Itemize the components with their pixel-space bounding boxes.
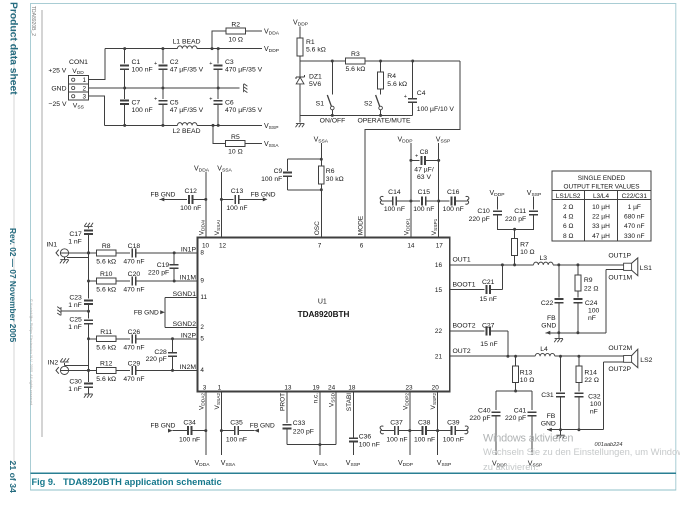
svg-text:C6: C6 <box>225 100 234 107</box>
svg-text:−25 V: −25 V <box>49 101 67 108</box>
svg-text:C12: C12 <box>184 188 197 195</box>
svg-text:R12: R12 <box>100 360 113 367</box>
svg-text:C26: C26 <box>128 329 141 336</box>
svg-text:100 nF: 100 nF <box>180 205 201 212</box>
svg-text:22 Ω: 22 Ω <box>584 377 599 384</box>
svg-text:FB: FB <box>547 413 556 420</box>
svg-text:7: 7 <box>318 243 322 250</box>
svg-text:2 Ω: 2 Ω <box>563 204 573 211</box>
svg-text:C5: C5 <box>170 100 179 107</box>
svg-text:330 nF: 330 nF <box>624 233 645 240</box>
svg-text:220 pF: 220 pF <box>148 269 169 276</box>
svg-text:5.6 kΩ: 5.6 kΩ <box>345 66 365 73</box>
svg-text:10 Ω: 10 Ω <box>520 377 535 384</box>
svg-text:2: 2 <box>200 324 204 331</box>
svg-text:C35: C35 <box>230 420 243 427</box>
svg-text:C19: C19 <box>157 262 170 269</box>
svg-text:33 µH: 33 µH <box>592 223 610 230</box>
svg-text:C3: C3 <box>225 59 234 66</box>
svg-text:5.6 kΩ: 5.6 kΩ <box>306 47 326 54</box>
svg-text:10 Ω: 10 Ω <box>520 249 535 256</box>
svg-text:L3: L3 <box>540 255 548 262</box>
svg-text:5V6: 5V6 <box>309 81 321 88</box>
svg-text:C23: C23 <box>69 294 82 301</box>
svg-text:100 nF: 100 nF <box>226 436 247 443</box>
svg-text:C21: C21 <box>482 279 495 286</box>
svg-text:47 µH: 47 µH <box>592 233 610 240</box>
svg-text:1 nF: 1 nF <box>68 324 82 331</box>
svg-text:R13: R13 <box>520 369 533 376</box>
svg-text:8: 8 <box>200 250 204 257</box>
svg-text:63 V: 63 V <box>417 174 431 181</box>
svg-text:Wechseln Sie zu den Einstellun: Wechseln Sie zu den Einstellungen, um Wi… <box>483 446 680 457</box>
svg-text:C39: C39 <box>447 420 460 427</box>
svg-text:+: + <box>415 154 418 160</box>
svg-text:LS2: LS2 <box>640 357 652 364</box>
svg-text:47 µF/: 47 µF/ <box>414 166 434 173</box>
svg-text:+25 V: +25 V <box>48 68 66 75</box>
svg-text:21 of 34: 21 of 34 <box>8 461 18 494</box>
svg-text:680 nF: 680 nF <box>624 214 645 221</box>
svg-text:C15: C15 <box>418 189 431 196</box>
svg-text:+: + <box>209 61 212 67</box>
svg-text:470 nF: 470 nF <box>624 223 645 230</box>
svg-text:470 nF: 470 nF <box>123 376 144 383</box>
svg-text:19: 19 <box>312 385 320 392</box>
svg-text:6: 6 <box>360 243 364 250</box>
svg-text:LS1/LS2: LS1/LS2 <box>556 193 581 200</box>
svg-text:100 nF: 100 nF <box>384 206 405 213</box>
svg-text:OSC: OSC <box>314 221 321 235</box>
svg-text:L4: L4 <box>540 346 548 353</box>
svg-text:R7: R7 <box>520 241 529 248</box>
svg-text:100 nF: 100 nF <box>132 66 153 73</box>
svg-text:100 nF: 100 nF <box>179 436 200 443</box>
svg-text:R2: R2 <box>231 21 240 28</box>
svg-text:GND: GND <box>541 420 556 427</box>
svg-text:1 nF: 1 nF <box>68 302 82 309</box>
svg-text:5: 5 <box>200 336 204 343</box>
svg-text:C20: C20 <box>128 271 141 278</box>
svg-text:OUT2: OUT2 <box>453 348 471 355</box>
svg-text:C25: C25 <box>69 316 82 323</box>
svg-text:4: 4 <box>200 367 204 374</box>
svg-text:18: 18 <box>348 385 356 392</box>
svg-text:5.6 kΩ: 5.6 kΩ <box>387 81 407 88</box>
svg-text:17: 17 <box>436 243 444 250</box>
svg-text:C29: C29 <box>128 360 141 367</box>
svg-text:16: 16 <box>435 262 443 269</box>
svg-text:C38: C38 <box>418 420 431 427</box>
svg-text:220 pF: 220 pF <box>146 356 167 363</box>
svg-text:30 kΩ: 30 kΩ <box>326 176 344 183</box>
svg-text:470 nF: 470 nF <box>123 259 144 266</box>
svg-text:220 pF: 220 pF <box>293 428 314 435</box>
svg-text:47 µF/35 V: 47 µF/35 V <box>170 107 204 114</box>
svg-text:10 µH: 10 µH <box>592 204 610 211</box>
svg-text:OUT2P: OUT2P <box>608 366 631 373</box>
svg-text:CON1: CON1 <box>69 59 88 66</box>
svg-text:R14: R14 <box>584 369 597 376</box>
svg-text:zu aktivieren.: zu aktivieren. <box>483 461 538 472</box>
svg-text:R10: R10 <box>100 271 113 278</box>
svg-text:220 pF: 220 pF <box>469 216 490 223</box>
svg-text:C41: C41 <box>514 407 527 414</box>
svg-text:R8: R8 <box>102 243 111 250</box>
svg-text:SINGLE ENDED: SINGLE ENDED <box>578 175 626 182</box>
svg-text:1 µF: 1 µF <box>628 204 641 211</box>
svg-text:22 Ω: 22 Ω <box>584 285 599 292</box>
svg-text:ON/OFF: ON/OFF <box>320 117 346 124</box>
svg-text:U1: U1 <box>318 299 327 306</box>
svg-text:100: 100 <box>590 401 602 408</box>
svg-text:C22/C31: C22/C31 <box>622 193 648 200</box>
svg-text:47 µF/35 V: 47 µF/35 V <box>170 66 204 73</box>
svg-text:MODE: MODE <box>358 215 365 235</box>
svg-text:nF: nF <box>588 315 596 322</box>
svg-text:+: + <box>404 94 407 100</box>
svg-text:Fig 9.: Fig 9. <box>32 477 56 487</box>
svg-text:S1: S1 <box>316 101 325 108</box>
svg-text:21: 21 <box>435 353 443 360</box>
svg-text:C18: C18 <box>128 243 141 250</box>
svg-text:100 µF/10 V: 100 µF/10 V <box>417 106 455 113</box>
svg-text:100: 100 <box>588 307 600 314</box>
svg-text:TDA8920BTH application schemat: TDA8920BTH application schematic <box>63 477 222 487</box>
svg-text:FB GND: FB GND <box>251 191 276 198</box>
svg-text:C17: C17 <box>69 231 82 238</box>
svg-text:5.6 kΩ: 5.6 kΩ <box>96 376 116 383</box>
svg-text:10 Ω: 10 Ω <box>228 36 243 43</box>
svg-text:DZ1: DZ1 <box>309 73 322 80</box>
svg-text:L3/L4: L3/L4 <box>593 193 609 200</box>
svg-text:20: 20 <box>432 385 440 392</box>
svg-text:C2: C2 <box>170 59 179 66</box>
svg-text:FB GND: FB GND <box>250 422 275 429</box>
svg-text:C14: C14 <box>388 189 401 196</box>
svg-text:C27: C27 <box>482 323 495 330</box>
svg-text:OPERATE/MUTE: OPERATE/MUTE <box>357 117 411 124</box>
svg-text:FB GND: FB GND <box>134 310 159 317</box>
svg-text:100 nF: 100 nF <box>414 436 435 443</box>
svg-text:OUT1: OUT1 <box>453 257 471 264</box>
svg-text:© Koninklijke Philips Electron: © Koninklijke Philips Electronics N.V. 2… <box>29 299 34 406</box>
svg-text:+: + <box>154 61 157 67</box>
svg-text:1 nF: 1 nF <box>68 386 82 393</box>
svg-text:Rev. 02 — 07 November 2005: Rev. 02 — 07 November 2005 <box>8 228 18 343</box>
svg-text:100 nF: 100 nF <box>132 107 153 114</box>
svg-text:C24: C24 <box>585 300 598 307</box>
svg-text:OUTPUT FILTER VALUES: OUTPUT FILTER VALUES <box>564 183 640 190</box>
svg-text:470 nF: 470 nF <box>123 344 144 351</box>
svg-text:R9: R9 <box>584 277 593 284</box>
svg-text:3: 3 <box>82 94 86 101</box>
svg-text:5.6 kΩ: 5.6 kΩ <box>96 344 116 351</box>
svg-text:14: 14 <box>407 243 415 250</box>
svg-text:BOOT2: BOOT2 <box>453 323 476 330</box>
svg-text:470 nF: 470 nF <box>123 287 144 294</box>
svg-text:C33: C33 <box>293 420 306 427</box>
svg-text:L2 BEAD: L2 BEAD <box>173 128 201 135</box>
svg-text:C9: C9 <box>274 168 283 175</box>
svg-text:5.6 kΩ: 5.6 kΩ <box>96 259 116 266</box>
svg-text:R4: R4 <box>387 73 396 80</box>
svg-text:13: 13 <box>284 385 292 392</box>
svg-text:1 nF: 1 nF <box>68 239 82 246</box>
svg-text:C36: C36 <box>359 434 372 441</box>
svg-text:470 µF/35 V: 470 µF/35 V <box>225 66 263 73</box>
svg-text:S2: S2 <box>364 101 373 108</box>
svg-text:GND: GND <box>51 85 66 92</box>
svg-text:1: 1 <box>218 385 222 392</box>
svg-text:GND: GND <box>541 322 556 329</box>
svg-text:PROT: PROT <box>279 393 286 411</box>
svg-text:L1 BEAD: L1 BEAD <box>173 39 201 46</box>
svg-text:220 pF: 220 pF <box>505 216 526 223</box>
svg-text:C7: C7 <box>132 100 141 107</box>
svg-text:C1: C1 <box>132 59 141 66</box>
svg-text:100 nF: 100 nF <box>261 176 282 183</box>
svg-text:100 nF: 100 nF <box>443 206 464 213</box>
svg-text:+: + <box>209 96 212 102</box>
svg-text:C32: C32 <box>588 393 601 400</box>
svg-text:10: 10 <box>202 243 210 250</box>
svg-text:IN2: IN2 <box>48 359 59 366</box>
svg-text:FB GND: FB GND <box>151 422 176 429</box>
svg-text:STABI: STABI <box>346 393 353 411</box>
svg-text:C37: C37 <box>390 420 403 427</box>
svg-text:15 nF: 15 nF <box>480 296 497 303</box>
svg-text:R11: R11 <box>100 329 112 336</box>
svg-text:220 pF: 220 pF <box>469 415 490 422</box>
svg-text:22: 22 <box>435 328 443 335</box>
svg-text:24: 24 <box>328 385 336 392</box>
svg-text:8 Ω: 8 Ω <box>563 233 573 240</box>
svg-text:R6: R6 <box>326 168 335 175</box>
svg-text:100 nF: 100 nF <box>226 205 247 212</box>
svg-text:10 Ω: 10 Ω <box>228 149 243 156</box>
svg-text:C34: C34 <box>183 420 196 427</box>
svg-text:C30: C30 <box>69 378 82 385</box>
svg-text:n.c.: n.c. <box>312 393 319 404</box>
svg-text:2: 2 <box>82 86 86 93</box>
svg-text:100 nF: 100 nF <box>386 436 407 443</box>
svg-text:11: 11 <box>200 294 207 301</box>
svg-text:FB GND: FB GND <box>151 191 176 198</box>
svg-text:12: 12 <box>219 243 227 250</box>
svg-text:220 pF: 220 pF <box>505 415 526 422</box>
svg-text:3: 3 <box>203 385 207 392</box>
svg-text:C22: C22 <box>541 300 554 307</box>
svg-text:R3: R3 <box>351 51 360 58</box>
svg-text:22 µH: 22 µH <box>592 214 610 221</box>
svg-text:BOOT1: BOOT1 <box>453 281 476 288</box>
svg-text:6 Ω: 6 Ω <box>563 223 573 230</box>
svg-text:R1: R1 <box>306 39 315 46</box>
svg-text:Product data sheet: Product data sheet <box>8 2 19 95</box>
svg-text:C4: C4 <box>417 90 426 97</box>
svg-text:C16: C16 <box>447 189 460 196</box>
svg-text:C28: C28 <box>154 349 167 356</box>
svg-text:nF: nF <box>590 409 598 416</box>
svg-text:C11: C11 <box>514 208 526 215</box>
svg-text:FB: FB <box>547 315 556 322</box>
svg-text:23: 23 <box>405 385 413 392</box>
svg-text:100 nF: 100 nF <box>443 436 464 443</box>
svg-text:LS1: LS1 <box>640 265 652 272</box>
svg-text:OUT1M: OUT1M <box>608 274 632 281</box>
svg-text:IN1: IN1 <box>46 242 57 249</box>
svg-text:100 nF: 100 nF <box>359 441 380 448</box>
svg-text:C10: C10 <box>477 208 490 215</box>
svg-text:5.6 kΩ: 5.6 kΩ <box>96 287 116 294</box>
svg-text:OUT1P: OUT1P <box>608 253 631 260</box>
svg-text:+: + <box>154 96 157 102</box>
svg-text:TDA8920B_2: TDA8920B_2 <box>30 6 36 36</box>
svg-text:Windows aktivieren: Windows aktivieren <box>483 432 573 444</box>
svg-text:TDA8920BTH: TDA8920BTH <box>298 310 350 319</box>
svg-text:4 Ω: 4 Ω <box>563 214 573 221</box>
svg-text:OUT2M: OUT2M <box>608 345 632 352</box>
svg-text:C31: C31 <box>541 392 554 399</box>
svg-text:9: 9 <box>200 278 204 285</box>
svg-text:15: 15 <box>435 287 443 294</box>
svg-text:C8: C8 <box>420 149 429 156</box>
svg-text:100 nF: 100 nF <box>413 206 434 213</box>
svg-text:15 nF: 15 nF <box>480 341 497 348</box>
svg-text:470 µF/35 V: 470 µF/35 V <box>225 107 263 114</box>
svg-text:R5: R5 <box>231 134 240 141</box>
svg-text:C13: C13 <box>231 188 244 195</box>
svg-text:1: 1 <box>82 77 86 84</box>
svg-text:C40: C40 <box>478 407 491 414</box>
